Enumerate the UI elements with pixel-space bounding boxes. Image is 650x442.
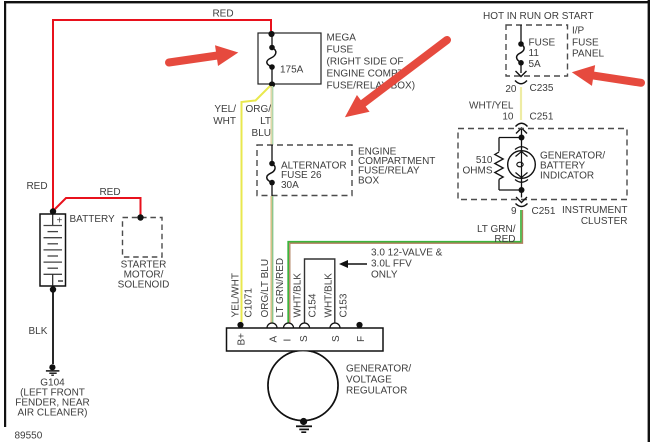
- terminal socket A: [267, 323, 277, 328]
- svg-text:C235: C235: [530, 83, 554, 94]
- svg-text:10: 10: [502, 112, 514, 123]
- wire RED battery to mega fuse (top run): [53, 20, 271, 211]
- generator terminal strip: [227, 328, 384, 351]
- node cluster top junction: [519, 135, 525, 141]
- svg-text:S: S: [299, 335, 310, 342]
- svg-text:RED: RED: [26, 181, 47, 192]
- label ENGINE COMPARTMENT FUSE/RELAY BOX: [358, 147, 435, 187]
- terminal socket S2: [330, 323, 340, 328]
- connector C251 pin9 female socket (arc): [516, 204, 528, 207]
- wire RED battery to starter solenoid: [53, 198, 141, 215]
- terminal socket I: [284, 323, 294, 328]
- ground G104: [46, 364, 60, 375]
- connector C251 pin9 male pin (chevron down): [516, 197, 527, 203]
- I/P fuse panel box (dashed): [506, 25, 568, 76]
- fuse 11 element: [517, 25, 525, 73]
- svg-text:C154: C154: [308, 293, 319, 317]
- node B+: [237, 322, 243, 328]
- svg-text:YEL/: YEL/: [214, 104, 236, 115]
- svg-text:LT: LT: [260, 116, 271, 127]
- connector C235 female socket (arc): [515, 81, 527, 84]
- svg-text:FUSE: FUSE: [327, 45, 354, 56]
- wire LT GRN/RED cluster to terminal I: [288, 210, 522, 323]
- svg-text:510: 510: [476, 155, 493, 166]
- svg-text:C251: C251: [530, 112, 554, 123]
- svg-text:C153: C153: [339, 293, 350, 317]
- label 510 OHMS: [463, 155, 493, 177]
- frame right edge: [648, 0, 650, 442]
- label LT GRN/ RED: [477, 224, 516, 245]
- svg-text:SOLENOID: SOLENOID: [118, 280, 170, 291]
- svg-text:S: S: [331, 335, 342, 342]
- svg-text:I: I: [283, 339, 294, 342]
- label YEL/WHT (two lines): [213, 104, 236, 127]
- node F: [356, 322, 362, 328]
- annotation arrow 1 (points at mega fuse): [168, 42, 240, 73]
- svg-text:RED: RED: [212, 9, 233, 20]
- svg-text:WHT/BLK: WHT/BLK: [324, 273, 335, 318]
- svg-text:20: 20: [505, 84, 517, 95]
- svg-text:AIR CLEANER): AIR CLEANER): [17, 408, 87, 419]
- svg-text:RED: RED: [494, 234, 515, 245]
- mega fuse box: [258, 33, 321, 84]
- label GENERATOR/ BATTERY INDICATOR: [540, 151, 605, 182]
- label STARTER MOTOR/ SOLENOID: [118, 260, 170, 291]
- svg-text:BOX: BOX: [358, 176, 379, 187]
- svg-text:C251: C251: [532, 206, 556, 217]
- svg-text:INSTRUMENT: INSTRUMENT: [562, 205, 628, 216]
- terminal socket S: [300, 323, 310, 328]
- svg-text:A: A: [269, 336, 280, 343]
- svg-text:ORG/: ORG/: [245, 104, 271, 115]
- svg-text:3.0L FFV: 3.0L FFV: [371, 259, 412, 270]
- annotation arrow 2 (points at I/P fuse panel): [570, 62, 642, 93]
- svg-text:175A: 175A: [280, 65, 304, 76]
- annotation arrow (3.0 FFV note): [339, 260, 367, 268]
- svg-text:9: 9: [511, 206, 517, 217]
- resistor 510 ohms: [495, 138, 503, 191]
- wire bottom rail from resistor: [499, 189, 522, 191]
- label G104 and location: [15, 378, 89, 419]
- svg-text:INDICATOR: INDICATOR: [540, 171, 594, 182]
- instrument cluster box (dashed): [458, 129, 627, 200]
- svg-text:+: +: [57, 216, 63, 227]
- svg-text:GENERATOR/: GENERATOR/: [346, 364, 411, 375]
- svg-text:F: F: [356, 336, 367, 342]
- label MEGA FUSE block: [327, 33, 416, 92]
- svg-text:VOLTAGE: VOLTAGE: [346, 375, 392, 386]
- svg-text:3.0 12-VALVE &: 3.0 12-VALVE &: [371, 248, 443, 259]
- label I/P FUSE PANEL: [572, 26, 604, 60]
- label ORG/LT BLU (three lines): [245, 104, 271, 139]
- svg-text:30A: 30A: [281, 180, 299, 191]
- svg-text:B+: B+: [237, 333, 248, 346]
- annotation arrow 3 (points at engine compartment box): [339, 32, 454, 126]
- svg-text:ORG/LT BLU: ORG/LT BLU: [260, 259, 271, 318]
- svg-text:OHMS: OHMS: [463, 166, 493, 177]
- svg-text:FUSE: FUSE: [572, 38, 599, 49]
- svg-text:11: 11: [529, 48, 540, 59]
- svg-text:WHT/BLK: WHT/BLK: [293, 273, 304, 318]
- wire ORG/LT BLU below alternator fuse box to terminal A: [271, 196, 273, 324]
- svg-text:(RIGHT SIDE OF: (RIGHT SIDE OF: [327, 57, 404, 68]
- svg-text:I/P: I/P: [572, 26, 585, 37]
- node mega fuse top: [268, 31, 274, 37]
- svg-text:WHT/YEL: WHT/YEL: [469, 101, 514, 112]
- label FUSE 11 5A: [529, 38, 556, 71]
- label INSTRUMENT CLUSTER: [562, 205, 628, 227]
- node battery negative: [50, 286, 56, 292]
- svg-text:BLK: BLK: [29, 326, 48, 337]
- svg-text:5A: 5A: [529, 59, 542, 70]
- connector C235 male pin (chevron down): [516, 71, 527, 77]
- node battery positive: [50, 208, 56, 214]
- label 3.0 12-VALVE & 3.0L FFV ONLY: [371, 248, 443, 281]
- svg-text:FUSE: FUSE: [529, 38, 556, 49]
- frame top edge: [4, 1, 650, 3]
- S-S jumper loop with connectors C154/C153: [305, 259, 335, 323]
- svg-text:PANEL: PANEL: [572, 49, 604, 60]
- svg-text:LT GRN/RED: LT GRN/RED: [275, 258, 286, 318]
- wire WHT/YEL (fuse panel to cluster): [520, 87, 522, 120]
- node cluster bottom junction: [519, 187, 525, 193]
- svg-text:CLUSTER: CLUSTER: [581, 216, 628, 227]
- wire ORG/LT BLU above alternator fuse box: [271, 86, 273, 145]
- svg-text:RED: RED: [99, 187, 120, 198]
- generator body overlap mask: [269, 351, 337, 419]
- svg-text:FUSE/RELAY BOX): FUSE/RELAY BOX): [327, 81, 416, 92]
- svg-text:HOT IN RUN OR START: HOT IN RUN OR START: [483, 11, 594, 22]
- svg-text:BATTERY: BATTERY: [70, 214, 116, 225]
- connector C251 pin10 female socket (arc): [516, 123, 528, 126]
- wire YEL/WHT mega fuse to B+: [242, 86, 271, 322]
- frame left edge: [4, 1, 6, 427]
- svg-text:ONLY: ONLY: [371, 270, 398, 281]
- node starter terminal: [137, 214, 143, 220]
- engine compartment fuse/relay box (dashed): [257, 145, 352, 196]
- wire junction to pin 9: [521, 190, 523, 198]
- label ALTERNATOR FUSE 26 30A: [281, 161, 347, 192]
- generator/battery indicator lamp: [508, 138, 536, 191]
- node mega fuse bottom: [269, 81, 275, 87]
- generator case ground: [296, 418, 312, 432]
- svg-text:WHT: WHT: [213, 116, 236, 127]
- wire pin10 into junction: [521, 129, 523, 138]
- svg-text:REGULATOR: REGULATOR: [346, 386, 407, 397]
- svg-text:89550: 89550: [15, 431, 43, 442]
- wire top rail to resistor: [499, 137, 522, 139]
- svg-text:YEL/WHT: YEL/WHT: [231, 273, 242, 317]
- svg-text:BLU: BLU: [252, 128, 271, 139]
- starter motor/solenoid box (dashed): [123, 218, 163, 258]
- label GENERATOR/ VOLTAGE REGULATOR: [346, 364, 411, 397]
- svg-text:MEGA: MEGA: [327, 33, 357, 44]
- fuse F175 element: [267, 48, 276, 68]
- battery: [40, 214, 66, 286]
- wire BLK battery to ground: [52, 289, 54, 365]
- svg-text:C1071: C1071: [244, 288, 255, 318]
- generator/voltage regulator body (circle): [268, 351, 338, 421]
- fuse 26 element: [267, 145, 275, 196]
- connector C251 pin10 male pin (chevron up): [516, 128, 527, 134]
